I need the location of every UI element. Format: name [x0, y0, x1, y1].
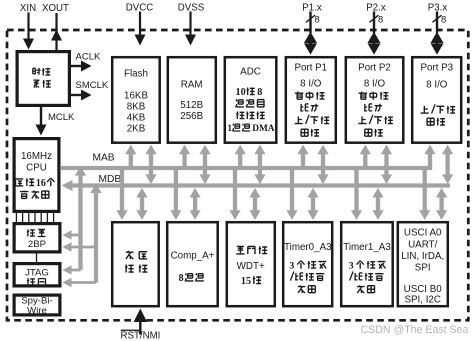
block emulation 2BP (fang-zhen 2BP)	[14, 224, 60, 252]
block Port P1 8 I/O interrupt pullup/pulldown	[286, 57, 336, 143]
wire MAB to Port P1 (address)	[297, 145, 308, 170]
svg-text:Timer0_A3: Timer0_A3	[284, 242, 332, 253]
svg-text:USCI A0: USCI A0	[404, 228, 442, 239]
pin label P1.x	[302, 3, 322, 14]
wire MAB drop to debug blocks	[75, 166, 86, 270]
svg-text:Timer1_A3: Timer1_A3	[343, 242, 391, 253]
svg-text:Wire: Wire	[27, 306, 47, 317]
label MDB	[99, 174, 122, 185]
label SMCLK	[76, 80, 109, 91]
wire MAB to brownout (address)	[116, 168, 127, 220]
svg-text:MCLK: MCLK	[48, 112, 75, 123]
wire XIN input to clock	[23, 13, 34, 50]
wire MAB to ADC (address)	[235, 145, 246, 170]
svg-text:Comp_A+: Comp_A+	[171, 251, 215, 262]
pin label DVSS	[178, 3, 205, 14]
block RAM 512B/256B	[168, 57, 216, 143]
wire USCI to MDB (data, bidir)	[436, 188, 447, 220]
wire MAB to WDT+ (address)	[229, 168, 240, 220]
wire bundle CPU to emulation (comb)	[16, 213, 53, 222]
svg-text:256B: 256B	[180, 111, 203, 122]
label MAB	[93, 153, 115, 164]
block CPU 16MHz (includes 16 registers)	[14, 139, 59, 212]
wire brownout to MDB (data, bidir)	[136, 188, 147, 220]
wire DVSS supply	[185, 12, 196, 46]
svg-text:4KB: 4KB	[127, 113, 146, 124]
block Timer0_A3 3 capture/compare registers	[283, 222, 332, 306]
wire Flash to MDB (data, bidir)	[145, 145, 156, 184]
block clock system (shi-zhong xi-tong)	[17, 52, 69, 106]
svg-text:XIN: XIN	[20, 3, 36, 14]
svg-text:Port P3: Port P3	[420, 63, 453, 74]
svg-text:8 I/O: 8 I/O	[300, 79, 322, 90]
pin label DVCC	[126, 3, 153, 14]
pin label XOUT	[42, 3, 69, 14]
svg-text:CSDN @The East Sea: CSDN @The East Sea	[361, 324, 469, 336]
block Spy-Bi-Wire	[14, 295, 60, 316]
svg-text:8: 8	[179, 273, 184, 284]
wire XOUT output from clock	[51, 13, 62, 50]
svg-text:16MHz: 16MHz	[21, 151, 52, 162]
svg-text:2BP: 2BP	[28, 239, 46, 250]
svg-text:10: 10	[236, 87, 246, 98]
svg-text:WDT+: WDT+	[237, 261, 265, 272]
svg-text:SPI: SPI	[415, 263, 431, 274]
bus MAB (memory address bus)	[61, 166, 431, 170]
pin label RST/NMI (RST active low overline)	[121, 330, 161, 341]
svg-text:RAM: RAM	[181, 80, 203, 91]
wire MAB to Timer0_A3 (address)	[286, 168, 297, 220]
svg-text:Flash: Flash	[124, 69, 148, 80]
wire ACLK output arrow	[71, 61, 92, 72]
svg-text:USCI B0: USCI B0	[404, 284, 443, 295]
block Port P2 8 I/O interrupt pullup/pulldown	[346, 57, 404, 143]
wire P3.x port bus (8 bits)	[431, 12, 447, 55]
wire DVCC supply	[135, 12, 146, 46]
svg-text:MDB: MDB	[99, 174, 122, 185]
bus MDB (memory data bus) with arrow into CPU	[62, 180, 451, 191]
wire MAB branch into JTAG	[63, 265, 81, 275]
svg-text:8: 8	[441, 15, 446, 26]
wire MAB to USCI (address)	[419, 168, 430, 220]
wire Comp_A+ to MDB (data, bidir)	[190, 188, 201, 220]
svg-text:RST/NMI: RST/NMI	[121, 331, 161, 341]
svg-text:512B: 512B	[180, 100, 203, 111]
svg-text:SMCLK: SMCLK	[76, 80, 109, 91]
wire P2.x port bus (8 bits)	[368, 12, 384, 55]
wire MDB branch into emulation	[63, 242, 97, 252]
svg-text:Port P2: Port P2	[358, 63, 391, 74]
svg-text:2KB: 2KB	[127, 124, 146, 135]
svg-text:8 I/O: 8 I/O	[364, 79, 386, 90]
wire emulation to JTAG link	[36, 254, 38, 263]
block ADC 10-bit 8ch auto-scan 1ch DMA	[225, 57, 276, 143]
svg-text:P1.x: P1.x	[302, 3, 322, 14]
svg-text:3: 3	[289, 261, 294, 272]
wire MAB to Comp_A+ (address)	[170, 168, 181, 220]
block Timer1_A3 3 capture/compare registers	[341, 222, 393, 306]
wire MAB to RAM (address)	[179, 145, 190, 170]
svg-text:Port P1: Port P1	[294, 63, 327, 74]
svg-text:1: 1	[227, 124, 232, 134]
wire Timer1_A3 to MDB (data, bidir)	[372, 188, 383, 220]
svg-text:XOUT: XOUT	[42, 3, 69, 14]
label MCLK	[48, 112, 75, 123]
wire RAM to MDB (data, bidir)	[199, 145, 210, 184]
svg-text:8KB: 8KB	[127, 102, 146, 113]
svg-text:3: 3	[349, 261, 354, 272]
pin label P2.x	[366, 3, 386, 14]
block Flash memory 16KB/8KB/4KB/2KB	[112, 57, 160, 143]
pin label XIN	[20, 3, 36, 14]
block USCI A0 UART/LIN/IrDA/SPI and USCI B0 SPI/I2C	[398, 222, 448, 306]
wire MCLK clock to CPU	[36, 107, 47, 136]
wire Port P1 to MDB (data, bidir)	[317, 145, 328, 184]
svg-text:P2.x: P2.x	[366, 3, 386, 14]
wire P1.x port bus (8 bits)	[304, 12, 320, 55]
svg-text:DMA: DMA	[252, 124, 275, 134]
block JTAG interface (JTAG jie-kou)	[14, 264, 60, 286]
wire SMCLK output arrow	[71, 90, 92, 101]
watermark CSDN	[361, 324, 469, 336]
svg-text:8 I/O: 8 I/O	[426, 80, 448, 91]
wire MDB drop to debug blocks	[90, 183, 101, 282]
wire MAB to Port P2 (address)	[360, 145, 371, 170]
svg-text:8: 8	[378, 15, 383, 26]
svg-text:LIN, IrDA,: LIN, IrDA,	[401, 251, 444, 262]
svg-text:MAB: MAB	[93, 153, 115, 164]
block brownout protection (qian-ya bao-hu)	[112, 222, 159, 306]
svg-text:8: 8	[315, 15, 320, 26]
wire MAB to Timer1_A3 (address)	[351, 168, 362, 220]
svg-text:16: 16	[36, 178, 46, 189]
wire ADC to MDB (data, bidir)	[254, 145, 265, 184]
svg-text:16KB: 16KB	[124, 91, 148, 102]
svg-text:UART/: UART/	[408, 240, 437, 251]
wire RST/NMI input to brownout	[134, 309, 148, 335]
wire MDB branch into JTAG	[63, 278, 97, 288]
wire MAB to Port P3 (address)	[424, 145, 435, 170]
wire Port P2 to MDB (data, bidir)	[381, 145, 392, 184]
block Comp_A+ comparator 8 channels	[167, 222, 218, 306]
wire MAB to Flash (address)	[125, 145, 136, 170]
block Port P3 8 I/O pullup/pulldown	[412, 57, 461, 143]
label ACLK	[76, 52, 101, 63]
pin label P3.x	[428, 3, 448, 14]
svg-text:SPI, I2C: SPI, I2C	[404, 295, 440, 306]
svg-text:ADC: ADC	[240, 67, 261, 78]
block watchdog WDT+ 15-bit (kan-men-gou)	[227, 222, 275, 306]
svg-text:JTAG: JTAG	[25, 268, 49, 279]
svg-text:ACLK: ACLK	[76, 52, 101, 63]
svg-text:CPU: CPU	[26, 163, 47, 174]
wire WDT+ to MDB (data, bidir)	[249, 188, 260, 220]
svg-text:15: 15	[241, 276, 251, 287]
wire MAB branch into emulation	[63, 230, 81, 240]
wire Timer0_A3 to MDB (data, bidir)	[307, 188, 318, 220]
svg-text:8: 8	[257, 87, 262, 98]
wire Port P3 to MDB (data, bidir)	[442, 145, 453, 184]
